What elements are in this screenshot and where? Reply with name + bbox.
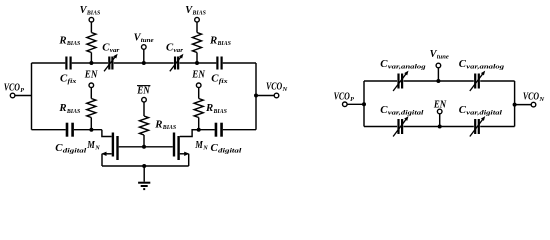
wire box top seg3 bbox=[480, 80, 514, 82]
node V_tune rail bbox=[142, 61, 146, 65]
svg-text:digital: digital bbox=[63, 148, 87, 155]
wire VCO_N bbox=[256, 95, 274, 97]
svg-text:EN: EN bbox=[433, 100, 447, 111]
svg-text:C: C bbox=[102, 42, 110, 53]
svg-text:R: R bbox=[205, 103, 214, 114]
resistor R_BIAS top-left bbox=[87, 33, 96, 53]
node top rail left bbox=[89, 61, 93, 65]
wire gate rail right b bbox=[223, 129, 256, 131]
svg-text:N: N bbox=[538, 96, 544, 103]
wire resistor to gate node bbox=[143, 135, 145, 147]
svg-text:BIAS: BIAS bbox=[192, 10, 207, 17]
terminal VCO_N bbox=[274, 93, 279, 98]
wire V_tune tap bbox=[437, 68, 439, 81]
wire gate jog left bbox=[102, 130, 112, 137]
wire gate mid right bbox=[144, 146, 173, 148]
svg-text:R: R bbox=[58, 35, 67, 46]
node VCO_N rail bbox=[254, 94, 258, 98]
node B bbox=[197, 128, 201, 132]
varactor C_var,analog right bbox=[474, 74, 476, 89]
node VCO_N junction bbox=[513, 103, 517, 107]
wire gate jog right bbox=[180, 130, 199, 137]
svg-text:var,analog: var,analog bbox=[388, 63, 427, 70]
svg-text:BIAS: BIAS bbox=[217, 40, 232, 47]
svg-text:C: C bbox=[380, 59, 388, 70]
svg-text:VCO: VCO bbox=[334, 92, 350, 103]
svg-text:BIAS: BIAS bbox=[86, 10, 101, 17]
terminal V_BIAS right bbox=[195, 17, 200, 22]
terminal V_tune right circuit bbox=[436, 63, 441, 68]
terminal VCO_P right circuit bbox=[343, 102, 348, 107]
svg-text:C: C bbox=[380, 105, 388, 116]
svg-text:EN: EN bbox=[191, 69, 205, 80]
wire EN left to resistor bbox=[90, 88, 92, 99]
capacitor C_fix left bbox=[65, 57, 67, 70]
resistor R_BIAS middle bbox=[140, 116, 149, 135]
wire source right bbox=[180, 153, 188, 155]
svg-text:N: N bbox=[282, 86, 288, 93]
node V_tune tap bbox=[436, 79, 440, 83]
svg-text:BIAS: BIAS bbox=[66, 108, 81, 115]
wire right rail bbox=[255, 63, 257, 130]
wire top rail seg1 bbox=[32, 62, 66, 64]
terminal EN right circuit bbox=[437, 109, 442, 114]
terminal EN left bbox=[89, 83, 94, 88]
wire gate mid left bbox=[119, 146, 144, 148]
capacitor C_digital left bbox=[66, 123, 69, 137]
svg-text:N: N bbox=[202, 144, 208, 151]
capacitor C_fix right bbox=[216, 57, 218, 70]
node gate mid bbox=[142, 145, 146, 149]
wire top rail seg4 bbox=[180, 62, 217, 64]
wire resistor to rail left bbox=[90, 53, 92, 64]
terminal VCO_N right circuit bbox=[531, 102, 536, 107]
resistor R_BIAS mid-right bbox=[194, 99, 203, 118]
svg-text:C: C bbox=[459, 59, 467, 70]
wire box top seg2 bbox=[404, 80, 474, 82]
varactor C_var,analog left bbox=[397, 74, 399, 89]
svg-text:BIAS: BIAS bbox=[66, 40, 81, 47]
svg-text:N: N bbox=[94, 144, 100, 151]
svg-text:VCO: VCO bbox=[4, 82, 20, 93]
node A bbox=[89, 128, 93, 132]
transistor M_N right bbox=[173, 133, 175, 157]
wire resistor to node B bbox=[198, 118, 200, 130]
wire box right edge bbox=[514, 81, 516, 127]
wire V_BIAS left to resistor bbox=[90, 22, 92, 33]
wire gate rail left a bbox=[32, 129, 66, 131]
svg-text:VCO: VCO bbox=[523, 92, 539, 103]
resistor R_BIAS mid-left bbox=[87, 99, 96, 118]
ground bbox=[138, 182, 150, 184]
wire box top seg1 bbox=[364, 80, 397, 82]
svg-text:fix: fix bbox=[68, 78, 78, 85]
terminal EN right bbox=[196, 83, 201, 88]
svg-text:C: C bbox=[166, 42, 174, 53]
varactor C_var right bbox=[174, 57, 176, 70]
svg-text:R: R bbox=[154, 120, 163, 131]
svg-text:BIAS: BIAS bbox=[162, 124, 177, 131]
wire EN-bar to resistor bbox=[143, 102, 145, 116]
svg-text:C: C bbox=[55, 143, 63, 154]
wire top rail seg2 bbox=[72, 62, 108, 64]
wire V_BIAS right to resistor bbox=[196, 22, 198, 33]
node VCO_P junction bbox=[362, 102, 366, 106]
wire left rail bbox=[31, 63, 33, 130]
wire gate rail left b bbox=[74, 129, 102, 131]
svg-text:BIAS: BIAS bbox=[213, 108, 228, 115]
wire V_tune to rail bbox=[143, 49, 145, 63]
terminal V_tune bbox=[142, 45, 147, 50]
svg-text:C: C bbox=[211, 73, 219, 84]
wire EN right to resistor bbox=[198, 88, 200, 99]
node EN tap bbox=[438, 125, 442, 129]
wire VCO_N right circuit bbox=[515, 104, 532, 106]
svg-text:fix: fix bbox=[219, 78, 229, 85]
svg-text:EN: EN bbox=[136, 86, 150, 97]
svg-text:C: C bbox=[459, 105, 467, 116]
resistor R_BIAS top-right bbox=[193, 33, 202, 53]
svg-text:var,digital: var,digital bbox=[466, 109, 502, 116]
varactor C_var,digital right bbox=[474, 119, 476, 134]
terminal VCO_P bbox=[10, 93, 15, 98]
svg-text:R: R bbox=[209, 35, 218, 46]
svg-text:C: C bbox=[211, 143, 219, 154]
wire box bottom seg1 bbox=[364, 126, 397, 128]
svg-text:tune: tune bbox=[141, 37, 154, 44]
svg-text:var: var bbox=[110, 47, 120, 54]
varactor C_var,digital left bbox=[397, 119, 399, 134]
wire resistor to node A bbox=[90, 118, 92, 130]
svg-text:P: P bbox=[20, 87, 25, 94]
svg-text:P: P bbox=[350, 96, 355, 103]
wire top rail seg3 bbox=[114, 62, 174, 64]
varactor C_var left bbox=[108, 57, 110, 70]
wire bottom rail bbox=[102, 165, 189, 167]
wire resistor to rail right bbox=[196, 53, 198, 64]
svg-text:R: R bbox=[58, 103, 67, 114]
wire box bottom seg2 bbox=[404, 126, 474, 128]
wire VCO_P right circuit bbox=[347, 103, 364, 105]
wire top rail seg5 bbox=[223, 62, 256, 64]
terminal V_BIAS left bbox=[89, 17, 94, 22]
wire box bottom seg3 bbox=[480, 126, 514, 128]
node ground bbox=[142, 164, 146, 168]
svg-text:var,analog: var,analog bbox=[466, 63, 505, 70]
svg-text:tune: tune bbox=[437, 54, 449, 61]
wire to ground bbox=[143, 166, 145, 182]
wire gate rail right a bbox=[192, 129, 215, 131]
svg-text:var,digital: var,digital bbox=[388, 109, 424, 116]
svg-text:VCO: VCO bbox=[266, 82, 282, 93]
svg-text:C: C bbox=[60, 73, 68, 84]
svg-text:digital: digital bbox=[218, 148, 242, 155]
node top rail right bbox=[195, 61, 199, 65]
capacitor C_digital right bbox=[215, 123, 218, 137]
wire EN tap bbox=[439, 114, 441, 127]
transistor M_N left bbox=[112, 133, 114, 157]
terminal EN-bar bbox=[142, 97, 147, 102]
wire box left edge bbox=[363, 81, 365, 127]
svg-text:var: var bbox=[174, 47, 184, 54]
wire VCO_P bbox=[15, 95, 32, 97]
svg-text:EN: EN bbox=[84, 69, 98, 80]
wire source left bbox=[103, 153, 112, 155]
